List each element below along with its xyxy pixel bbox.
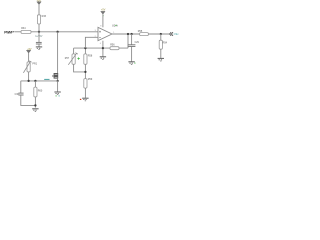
wire node A to C28 [38, 32, 40, 42]
wire R33 to node A [38, 24, 40, 32]
wire node A down to thermistor [57, 32, 59, 73]
wire VCC to PR1 [28, 53, 30, 62]
wire R60 down [34, 97, 36, 108]
op-amp U2:A [98, 24, 118, 41]
wire R54 to ground [160, 49, 162, 58]
port PWM (input terminal) [4, 30, 14, 34]
wire R55 to port [148, 33, 169, 35]
svg-text:R60: R60 [38, 89, 43, 92]
wire trimmer top to fb rail [73, 48, 75, 54]
value label teal (left of thermistor) [44, 78, 49, 80]
wire thermistor to bottom rail [57, 79, 59, 81]
junction R60/rail [34, 80, 36, 82]
node junction at x57.6 [56, 31, 58, 33]
ground (under R59) [82, 98, 88, 101]
wire output to C29 [131, 34, 133, 45]
wire op-amp pin4 down [102, 41, 104, 57]
green plus marker [77, 57, 79, 59]
ground (under C28) [36, 47, 42, 50]
resistor R60 [34, 87, 43, 97]
svg-text:U2:A: U2:A [112, 24, 118, 28]
red marker [80, 99, 81, 100]
ground (bottom-left) [32, 109, 38, 112]
wire VCC to R33 [38, 4, 40, 14]
wire R58 bottom [84, 64, 86, 78]
ground (under R54) [158, 58, 164, 61]
capacitor C30 [15, 93, 24, 96]
wire C30 down and right [21, 95, 36, 105]
wire PR1 to bottom rail [28, 72, 30, 81]
svg-text:R33: R33 [42, 15, 47, 18]
bottom-left rail [21, 80, 58, 82]
thermistor TH1 (dark glyph block) [52, 73, 58, 79]
svg-text:C29: C29 [135, 42, 140, 44]
junction output/fb [127, 33, 129, 35]
svg-text:R59: R59 [88, 78, 93, 81]
resistor R34 (series input) [21, 27, 31, 33]
wire rail to R60 [34, 81, 36, 87]
wire junction to earth [57, 81, 59, 92]
wire junction to R54 [160, 34, 162, 40]
wire V+ to op-amp [102, 14, 104, 27]
output rail [112, 33, 140, 35]
wire fb rail up to output [127, 34, 129, 48]
wire inverting input [85, 37, 98, 48]
junction bottom rail x57.6 [56, 80, 58, 82]
ground (under op-amp) [100, 57, 106, 60]
svg-text:4: 4 [100, 43, 102, 45]
junction R58/trimmer [84, 71, 86, 73]
svg-text:R34: R34 [21, 27, 26, 30]
feedback rail [74, 47, 128, 49]
svg-text:PWM: PWM [4, 30, 12, 34]
node A junction at x39 [38, 31, 40, 33]
svg-text:+5V: +5V [101, 8, 106, 11]
resistor R55 (output series) [138, 30, 149, 36]
capacitor C29 [128, 42, 140, 47]
resistor R59 [84, 78, 93, 88]
ground (earth, below thermistor node) [54, 92, 60, 96]
svg-text:C30: C30 [15, 94, 20, 96]
port Out (right terminal) [170, 32, 180, 36]
wire rail corner down to C30 [20, 81, 22, 93]
power +5V arrow (top of R33) [37, 0, 42, 5]
svg-text:8: 8 [100, 25, 102, 27]
wire main rail (node A) [31, 31, 98, 33]
trimmer PR1 [23, 61, 37, 73]
power +5V arrow (top of PR1) [26, 48, 32, 53]
svg-text:R55: R55 [138, 30, 143, 33]
junction pin4/fb rail [102, 47, 104, 49]
svg-text:R57: R57 [65, 58, 70, 60]
wire R59 to ground [84, 88, 86, 98]
wire trimmer bottom to junction [74, 64, 86, 72]
junction fb rail x85.4 [84, 47, 86, 49]
wire fb rail to R58 [84, 48, 86, 54]
junction output/C29 [130, 33, 132, 35]
resistor R58 [84, 54, 93, 64]
svg-text:C9v: C9v [174, 32, 180, 36]
junction PR1/rail [27, 80, 29, 82]
ground (under C29) [128, 62, 135, 65]
svg-text:R56: R56 [110, 44, 115, 47]
wire C28 to ground [38, 44, 40, 47]
svg-text:R58: R58 [88, 55, 93, 58]
junction output/R54 [160, 33, 162, 35]
power +5V arrow (op-amp V+) [101, 8, 106, 16]
svg-text:PR1: PR1 [32, 63, 37, 66]
capacitor C28 [36, 42, 42, 44]
trimmer RV2 (left of R57) [65, 53, 78, 65]
wire port to R34 [14, 31, 21, 33]
svg-text:R54: R54 [163, 41, 168, 44]
wire C29 to ground [131, 46, 133, 61]
junction C30/R60 [34, 104, 36, 106]
resistor R54 [159, 40, 167, 49]
resistor R56 (feedback) [110, 44, 119, 50]
resistor R33 (pull-up) [37, 15, 46, 24]
